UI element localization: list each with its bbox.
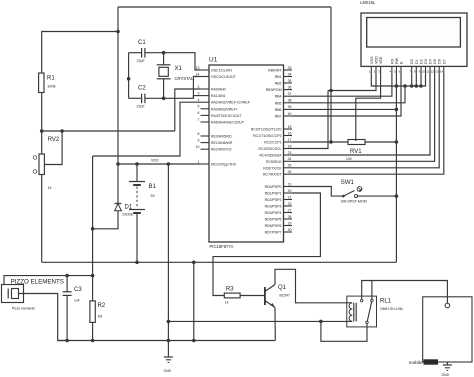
- svg-text:RB0/INT: RB0/INT: [268, 69, 282, 73]
- svg-text:19: 19: [288, 182, 292, 186]
- svg-text:C2: C2: [138, 86, 146, 92]
- svg-text:RE2/AN7/CS: RE2/AN7/CS: [211, 148, 232, 152]
- wire D4 to RC4: [292, 74, 430, 156]
- svg-text:CRYSTAL: CRYSTAL: [175, 76, 195, 81]
- svg-text:RC6/TX/CK: RC6/TX/CK: [263, 166, 282, 170]
- svg-text:35: 35: [288, 79, 292, 83]
- wire bottom ground bus: [58, 340, 276, 342]
- node junction rail RW: [395, 84, 399, 88]
- svg-text:11: 11: [426, 70, 429, 74]
- svg-text:RV2: RV2: [48, 137, 60, 143]
- wire D6 to RC6: [292, 74, 439, 168]
- svg-text:VEE: VEE: [379, 56, 383, 64]
- svg-text:20: 20: [288, 189, 292, 193]
- svg-text:RB7: RB7: [275, 115, 282, 119]
- svg-text:SW1: SW1: [341, 179, 355, 186]
- switch SW1 SW-SPST-MOM: [341, 179, 367, 204]
- svg-text:Q1: Q1: [278, 285, 287, 291]
- node junction on C1/C2 left vertical: [127, 77, 131, 81]
- pin 1 LCD VSS: [369, 56, 374, 74]
- svg-text:8: 8: [198, 132, 200, 136]
- svg-text:RD0/PSP0: RD0/PSP0: [265, 185, 282, 189]
- svg-text:22: 22: [288, 202, 292, 206]
- node junction battery bottom: [135, 261, 139, 265]
- wire ground riser x=168.4 from VDD line to ground: [167, 164, 169, 357]
- wire SW1 to right vertical: [358, 195, 397, 197]
- pin 17 RC2/CCP1: [264, 138, 292, 145]
- wire relay common return: [321, 321, 367, 341]
- wire RA1 pin3 stub jog: [193, 96, 200, 99]
- wire RS column to RB4: [292, 74, 392, 97]
- wire RV2 wiper riser: [44, 131, 62, 165]
- pin 5 LCD RW: [394, 57, 399, 73]
- svg-text:RB2: RB2: [275, 82, 282, 86]
- pin 8 LCD D1: [414, 59, 419, 73]
- wire RB5 pin38 riser: [292, 86, 405, 103]
- svg-text:1M: 1M: [98, 315, 103, 319]
- svg-text:RB5: RB5: [275, 101, 282, 105]
- node junction riser relay-line: [167, 320, 171, 324]
- svg-text:RB1: RB1: [275, 75, 282, 79]
- pin 29 RD6/PSP6: [265, 221, 292, 228]
- svg-text:9: 9: [198, 138, 200, 142]
- node VDD junction ground riser: [167, 162, 171, 166]
- svg-text:RB3/PGM: RB3/PGM: [266, 88, 282, 92]
- svg-text:RA2/AN2/VREF-/CVREF: RA2/AN2/VREF-/CVREF: [211, 101, 250, 105]
- pin 37 RB4: [275, 92, 292, 99]
- svg-text:22pF: 22pF: [137, 105, 146, 109]
- svg-text:7: 7: [409, 70, 411, 74]
- svg-text:RC4/SDI/SDA: RC4/SDI/SDA: [260, 154, 283, 158]
- pin 1 MCLR/Vpp/THV: [198, 160, 237, 167]
- wire RD0 pin19 to SW1: [292, 187, 343, 197]
- wire D2 drop: [420, 74, 422, 87]
- svg-text:7: 7: [198, 118, 200, 122]
- ground symbol bottom-middle: [164, 357, 173, 373]
- svg-text:18: 18: [288, 144, 292, 148]
- svg-text:28: 28: [288, 215, 292, 219]
- svg-text:OMIH-SH-105L: OMIH-SH-105L: [380, 307, 403, 311]
- pin 13 OSC1/CLKIN: [196, 66, 233, 73]
- resistor R3: [224, 287, 240, 305]
- node crystal bottom junction: [162, 97, 166, 101]
- wire D5 to RC5: [292, 74, 435, 162]
- svg-text:15: 15: [288, 125, 292, 129]
- node junction relay common branch: [319, 320, 323, 324]
- svg-text:40: 40: [288, 112, 292, 116]
- node junction RW RB6: [395, 108, 399, 112]
- wire VSS ground rail: [371, 74, 425, 87]
- wire D7 to RC7: [292, 74, 444, 175]
- node junction VDD vertical on RV1 line: [329, 140, 333, 144]
- pin 6 RA4/T0CKI/C1OUT: [198, 111, 243, 118]
- pin 14 OSC2/CLKOUT: [196, 72, 237, 79]
- transistor Q1 BC547: [265, 285, 290, 308]
- pin 5 RA3/AN3/VREF+: [198, 105, 238, 112]
- svg-text:Pizzo elements: Pizzo elements: [12, 307, 35, 311]
- ground symbol bottom-right: [442, 365, 452, 377]
- svg-text:D6: D6: [438, 59, 442, 64]
- svg-text:RA1/AN1: RA1/AN1: [211, 94, 226, 98]
- svg-text:27: 27: [288, 208, 292, 212]
- svg-text:RE1/AN6/WR: RE1/AN6/WR: [211, 141, 233, 145]
- pin 6 LCD E: [399, 61, 404, 74]
- wire RD1 pin20 to R3: [213, 193, 320, 296]
- node junction ground riser on bus: [167, 339, 171, 343]
- wire piezo top line: [4, 276, 93, 285]
- svg-text:RC3/SCK/SCL: RC3/SCK/SCL: [259, 147, 282, 151]
- wire RA2 pin4 to piezo sense node: [93, 102, 201, 156]
- wire relay top to charger: [362, 281, 448, 304]
- pin 8 RE0/AN5/RD: [198, 132, 233, 139]
- svg-text:2: 2: [374, 70, 376, 74]
- pin 38 RB5: [275, 99, 292, 106]
- svg-text:RB4: RB4: [275, 95, 282, 99]
- svg-text:RC0/T1OSO/T1CKI: RC0/T1OSO/T1CKI: [251, 128, 282, 132]
- svg-text:6: 6: [399, 70, 401, 74]
- svg-text:RD4/PSP4: RD4/PSP4: [265, 211, 282, 215]
- svg-text:22pF: 22pF: [137, 59, 146, 63]
- svg-text:R3: R3: [226, 287, 234, 293]
- wire RV2 top-tap horizontal to RA0 vertical: [42, 130, 175, 132]
- pin 4 LCD RS: [390, 58, 395, 73]
- svg-text:30: 30: [288, 228, 292, 232]
- wire RC2 pin17 to RV1 left: [292, 141, 348, 143]
- wire RB6 pin39 to RW column: [292, 108, 396, 110]
- wire piezo sense vertical x=92.6: [92, 156, 94, 301]
- svg-text:RC7/RX/DT: RC7/RX/DT: [263, 173, 282, 177]
- svg-text:3: 3: [198, 91, 200, 95]
- node crystal top junction: [162, 51, 166, 55]
- pin 25 RC6/TX/CK: [263, 164, 292, 171]
- svg-text:9: 9: [419, 70, 421, 74]
- svg-text:D4: D4: [429, 59, 433, 64]
- svg-text:GND: GND: [442, 373, 450, 377]
- svg-text:RS: RS: [390, 58, 394, 64]
- wire relay coil bottom line: [168, 320, 352, 322]
- node junction RV2 top wire: [40, 129, 44, 133]
- wire crystal top node to OSC1 pin 13: [164, 53, 201, 70]
- svg-text:1: 1: [369, 70, 371, 74]
- node R2 bottom junction on bus: [91, 339, 95, 343]
- svg-text:4: 4: [390, 70, 392, 74]
- pin 34 RB1: [275, 72, 292, 79]
- svg-text:24: 24: [288, 157, 292, 161]
- pin 19 RD0/PSP0: [265, 182, 292, 189]
- wire E column to RB7: [292, 74, 401, 117]
- pin 23 RC4/SDI/SDA: [260, 151, 292, 158]
- wire D1 drop: [415, 74, 417, 87]
- svg-text:RV1: RV1: [350, 149, 362, 155]
- wire Q1 emitter to ground bus: [274, 308, 276, 341]
- pin 39 RB6: [275, 105, 292, 112]
- node junction rail D1: [415, 84, 419, 88]
- svg-text:RA5/AN4/SS/C2OUT: RA5/AN4/SS/C2OUT: [211, 121, 245, 125]
- transducer PIZZO ELEMENTS: [2, 279, 64, 311]
- svg-text:RD2/PSP2: RD2/PSP2: [265, 198, 282, 202]
- node junction piezo top line: [91, 274, 95, 278]
- svg-text:U1: U1: [209, 57, 218, 64]
- svg-text:LM016L: LM016L: [360, 0, 376, 5]
- potentiometer RV1: [346, 140, 365, 162]
- svg-text:D3: D3: [424, 59, 428, 64]
- node C3 top junction: [65, 274, 69, 278]
- node junction VDD loop x=331: [329, 89, 333, 93]
- wire VDD rail left vertical x=118: [117, 7, 119, 164]
- node junction cross-link on bus: [192, 339, 196, 343]
- wire cross-link vertical x=193.8: [193, 262, 195, 340]
- pin 18 RC3/SCK/SCL: [259, 144, 292, 151]
- pin 9 LCD D2: [419, 59, 424, 73]
- svg-text:RD6/PSP6: RD6/PSP6: [265, 224, 282, 228]
- pin 2 RA0/AN0: [198, 85, 226, 92]
- pin 21 RD2/PSP2: [265, 195, 292, 202]
- svg-text:23: 23: [288, 151, 292, 155]
- svg-text:D2: D2: [420, 59, 424, 64]
- svg-text:RA0/AN0: RA0/AN0: [211, 88, 226, 92]
- svg-text:13: 13: [435, 70, 439, 74]
- node junction rail D2: [419, 84, 423, 88]
- node junction rail D0: [410, 84, 414, 88]
- pin 24 RC5/SDO: [266, 157, 292, 164]
- svg-text:29: 29: [288, 221, 292, 225]
- svg-text:100: 100: [346, 157, 352, 161]
- wire RV2 bottom to ground bus: [41, 175, 43, 263]
- svg-text:5: 5: [394, 70, 396, 74]
- svg-text:DIODE: DIODE: [123, 213, 134, 217]
- svg-text:25: 25: [288, 164, 292, 168]
- svg-text:RA4/T0CKI/C1OUT: RA4/T0CKI/C1OUT: [211, 114, 242, 118]
- svg-text:1k: 1k: [48, 186, 52, 190]
- svg-text:RB6: RB6: [275, 108, 282, 112]
- svg-text:VDD: VDD: [151, 159, 159, 163]
- relay RL1: [347, 281, 404, 330]
- svg-text:4: 4: [198, 98, 200, 102]
- load mobile charger box: [409, 297, 472, 366]
- pin 10 RE2/AN7/CS: [196, 145, 232, 152]
- node C3 bottom junction on bus: [65, 339, 69, 343]
- svg-text:MCLR/Vpp/THV: MCLR/Vpp/THV: [211, 163, 237, 167]
- resistor R1: [39, 73, 56, 93]
- svg-text:8: 8: [414, 70, 416, 74]
- svg-text:34: 34: [288, 72, 292, 76]
- svg-text:B1: B1: [149, 184, 157, 190]
- pin 15 RC0/T1OSO/T1CKI: [251, 125, 292, 132]
- display LCD1 LM016L: [360, 0, 467, 66]
- svg-text:38: 38: [288, 99, 292, 103]
- wire Q1 collector to relay coil top: [275, 269, 352, 303]
- svg-text:37: 37: [288, 92, 292, 96]
- svg-text:1uF: 1uF: [74, 299, 80, 303]
- pin 7 RA5/AN4/SS/C2OUT: [198, 118, 245, 125]
- svg-text:21: 21: [288, 195, 292, 199]
- pin 11 LCD D4: [426, 59, 432, 73]
- svg-text:D0: D0: [410, 59, 414, 64]
- svg-text:D1: D1: [415, 59, 419, 64]
- wire charger bottom to ground: [446, 362, 448, 365]
- svg-text:RC5/SDO: RC5/SDO: [266, 160, 282, 164]
- pin 14 LCD D7: [440, 59, 446, 73]
- wire VDD column to rail-loop: [328, 74, 376, 91]
- wire top-left from R1 net to VDD rail vertical: [42, 32, 118, 74]
- pin 4 RA2/AN2/VREF-/CVREF: [198, 98, 250, 105]
- pin 10 LCD D3: [422, 59, 428, 73]
- node junction D1 anode on sense vertical: [91, 227, 95, 231]
- svg-text:RD5/PSP5: RD5/PSP5: [265, 218, 282, 222]
- pin 35 RB2: [275, 79, 292, 86]
- svg-text:10: 10: [196, 145, 200, 149]
- svg-text:D7: D7: [442, 59, 446, 64]
- crystal X1: [157, 53, 194, 99]
- pin 22 RD3/PSP3: [265, 202, 292, 209]
- wire R3 to Q1 base: [240, 295, 265, 297]
- svg-text:GND: GND: [164, 369, 172, 373]
- svg-text:VSS: VSS: [370, 56, 374, 64]
- svg-text:100k: 100k: [47, 84, 56, 89]
- node junction rail RB5 riser: [403, 84, 407, 88]
- wire R1 bottom to RV2: [41, 93, 43, 155]
- pin 27 RD4/PSP4: [265, 208, 292, 215]
- pin 20 RD1/PSP1: [265, 189, 292, 196]
- svg-text:6: 6: [198, 111, 200, 115]
- wire VDD rail right vertical x=331 down to RV1 line: [330, 7, 332, 142]
- svg-text:PIC16F877A: PIC16F877A: [210, 244, 234, 249]
- svg-text:R1: R1: [47, 76, 55, 82]
- wire RV1 right to RW vertical: [365, 141, 396, 143]
- capacitor C3: [63, 276, 83, 341]
- svg-text:10: 10: [422, 70, 426, 74]
- pin 26 RC7/RX/DT: [263, 170, 292, 177]
- pin 28 RD5/PSP5: [265, 215, 292, 222]
- battery B1: [129, 164, 157, 262]
- pin 9 RE1/AN6/WR: [198, 138, 233, 145]
- svg-text:5: 5: [198, 105, 200, 109]
- svg-text:D5: D5: [433, 59, 437, 64]
- svg-text:E: E: [400, 61, 404, 64]
- svg-text:VDD: VDD: [375, 56, 379, 64]
- node junction cross-link top: [192, 261, 196, 265]
- svg-text:RL1: RL1: [380, 299, 392, 305]
- svg-text:12: 12: [431, 70, 435, 74]
- wire D1 anode to piezo sense vertical: [93, 211, 118, 229]
- wire RW long vertical: [395, 74, 397, 263]
- wire VEE column to RV1 wiper: [356, 74, 381, 140]
- node VDD junction battery: [135, 162, 139, 166]
- svg-text:RD7/PSP7: RD7/PSP7: [265, 231, 282, 235]
- wire RC3 pin18 riser: [292, 91, 328, 149]
- svg-text:mobile: mobile: [409, 360, 423, 366]
- svg-text:SW-SPST-MOM: SW-SPST-MOM: [341, 200, 367, 204]
- node junction wiper riser: [60, 129, 64, 133]
- pin 13 LCD D6: [435, 59, 441, 73]
- node junction RW SW1: [395, 194, 399, 198]
- svg-text:RD1/PSP1: RD1/PSP1: [265, 192, 282, 196]
- diode D1: [115, 204, 134, 217]
- wire crystal bottom node to OSC2 pin 14: [164, 77, 201, 99]
- capacitor C1: [129, 40, 164, 63]
- svg-text:R2: R2: [98, 303, 106, 309]
- svg-text:OSC1/CLKIN: OSC1/CLKIN: [211, 69, 232, 73]
- svg-text:14: 14: [196, 72, 200, 76]
- wire D0 drop: [411, 74, 413, 87]
- svg-text:C3: C3: [74, 287, 82, 293]
- svg-text:RE0/AN5/RD: RE0/AN5/RD: [211, 135, 232, 139]
- svg-text:13: 13: [196, 66, 200, 70]
- svg-text:17: 17: [288, 138, 292, 142]
- svg-text:RD3/PSP3: RD3/PSP3: [265, 205, 282, 209]
- resistor R2: [90, 301, 106, 323]
- pin 3 RA1/AN1: [198, 91, 226, 98]
- svg-text:16: 16: [288, 131, 292, 135]
- wire R2 bottom to bus: [92, 322, 94, 340]
- svg-text:RC1/T1OSI/CCP2: RC1/T1OSI/CCP2: [253, 134, 281, 138]
- svg-text:RW: RW: [395, 57, 399, 64]
- node junction RW RV1: [395, 140, 399, 144]
- pin 36 RB3/PGM: [266, 85, 292, 92]
- node VDD junction x=118: [116, 162, 120, 166]
- svg-text:33: 33: [288, 66, 292, 70]
- svg-text:39: 39: [288, 105, 292, 109]
- svg-text:X1: X1: [175, 66, 183, 72]
- svg-text:9V: 9V: [151, 194, 156, 198]
- svg-text:26: 26: [288, 170, 292, 174]
- svg-text:OSC2/CLKOUT: OSC2/CLKOUT: [211, 75, 237, 79]
- svg-text:RA3/AN3/VREF+: RA3/AN3/VREF+: [211, 107, 238, 111]
- pin 16 RC1/T1OSI/CCP2: [253, 131, 292, 138]
- potentiometer RV2: [33, 137, 60, 190]
- svg-text:C1: C1: [138, 40, 146, 46]
- svg-text:1: 1: [198, 160, 200, 164]
- wire piezo output to bottom bus: [19, 294, 68, 341]
- wire C1/C2 left vertical: [128, 53, 130, 99]
- wire VDD top rail: [118, 6, 331, 8]
- svg-text:3: 3: [378, 70, 380, 74]
- svg-text:14: 14: [440, 70, 444, 74]
- svg-text:D1: D1: [125, 205, 133, 211]
- wire mid ground line y=262.3: [42, 261, 397, 263]
- pin 3 LCD VEE: [378, 56, 383, 74]
- wire RA0 pin2 to RV2 tap: [175, 89, 201, 131]
- pin 12 LCD D5: [431, 59, 437, 73]
- pin 30 RD7/PSP7: [265, 228, 292, 235]
- svg-text:RC2/CCP1: RC2/CCP1: [264, 141, 281, 145]
- wire VDD to D1 cathode: [117, 164, 119, 204]
- capacitor C2: [129, 86, 164, 109]
- pin 2 LCD VDD: [374, 56, 379, 74]
- pin 40 RB7: [275, 112, 292, 119]
- svg-text:1k: 1k: [225, 301, 229, 305]
- svg-text:36: 36: [288, 85, 292, 89]
- pin 33 RB0/INT: [268, 66, 292, 73]
- pin 7 LCD D0: [409, 59, 414, 73]
- svg-text:BC547: BC547: [280, 294, 290, 298]
- svg-text:2: 2: [198, 85, 200, 89]
- wire VDD line to MCLR pin1: [118, 159, 201, 165]
- microcontroller U1 PIC16F877A body: [209, 57, 284, 250]
- node junction on x=118 vertical at y=31.5: [116, 30, 120, 34]
